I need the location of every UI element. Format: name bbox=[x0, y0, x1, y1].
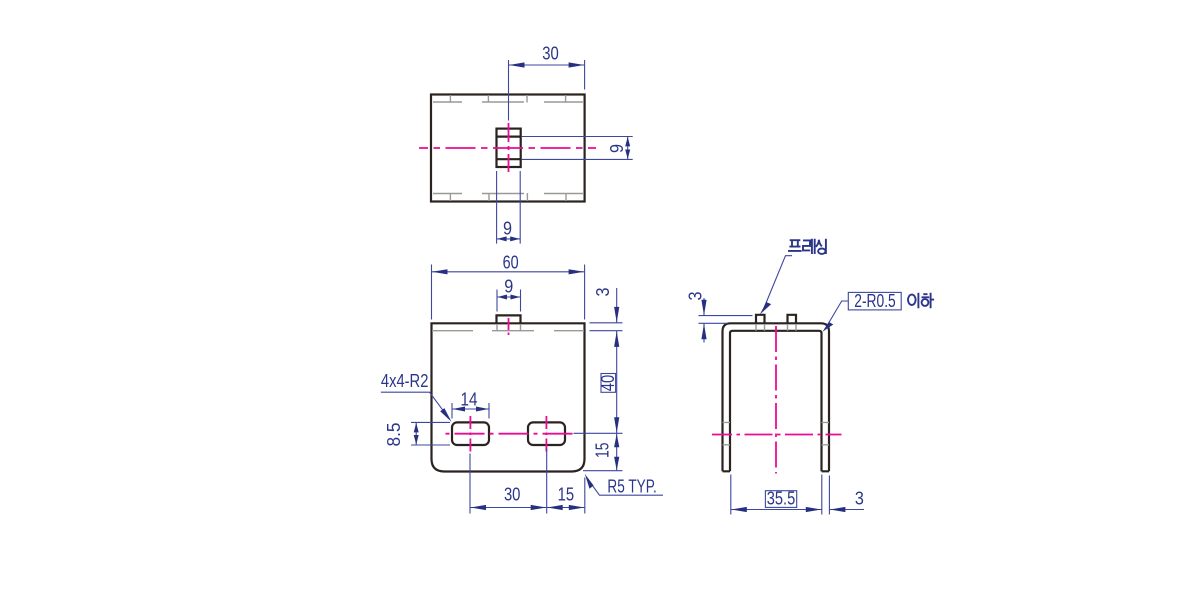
side view vertical centerline bbox=[775, 326, 777, 474]
dimension 8.5 (front view left) bbox=[384, 422, 450, 446]
hangul ha bbox=[922, 293, 935, 309]
front view right slot bbox=[528, 422, 565, 445]
front view tab centerline bbox=[508, 318, 510, 338]
svg-text:8.5: 8.5 bbox=[384, 423, 404, 447]
svg-text:2-R0.5: 2-R0.5 bbox=[854, 291, 896, 311]
svg-text:9: 9 bbox=[607, 144, 627, 153]
side view left tab bbox=[756, 315, 765, 324]
dimension 9 (top view bottom) bbox=[497, 171, 521, 244]
dimension 30 (front view bottom) bbox=[470, 449, 547, 514]
hangul i bbox=[908, 295, 916, 305]
side view channel outline bbox=[723, 323, 830, 471]
svg-text:3: 3 bbox=[855, 488, 864, 508]
svg-text:15: 15 bbox=[558, 485, 575, 505]
top view bend hidden lines (bottom) bbox=[433, 193, 584, 201]
label pressing (Korean) with leader bbox=[760, 239, 826, 315]
svg-text:35.5: 35.5 bbox=[767, 488, 796, 508]
label R5 TYP. with leader bbox=[585, 474, 663, 497]
front view left slot vertical centerline bbox=[469, 416, 471, 452]
dimension 15 (front view right) bbox=[583, 433, 623, 470]
top view horizontal centerline bbox=[419, 147, 596, 149]
dimension 15 (front view bottom) bbox=[547, 478, 585, 514]
top view vertical centerline bbox=[508, 123, 510, 172]
svg-text:3: 3 bbox=[593, 288, 613, 297]
dimension 3 (side view left) bbox=[686, 292, 753, 343]
dimension 40 boxed (front view right) bbox=[574, 331, 623, 433]
hangul sing bbox=[816, 239, 826, 254]
top view tab cutout bbox=[497, 129, 521, 167]
svg-text:R5 TYP.: R5 TYP. bbox=[607, 477, 656, 497]
side view tab hidden lines bbox=[756, 324, 796, 331]
svg-text:40: 40 bbox=[598, 375, 618, 392]
top view outline bbox=[431, 95, 585, 202]
top view bend hidden lines (top) bbox=[433, 95, 584, 103]
side view right tab bbox=[788, 315, 797, 324]
front view slot horizontal centerline bbox=[444, 433, 574, 435]
label 4x4-R2 with leader bbox=[381, 371, 452, 422]
dimension 9 (top view right) bbox=[522, 137, 633, 160]
label 2-R0.5 (boxed) with Korean suffix and leader bbox=[823, 291, 935, 332]
front view bend hidden line bbox=[432, 324, 584, 331]
dimension 3 (front view right top) bbox=[590, 288, 623, 331]
svg-text:30: 30 bbox=[542, 43, 559, 63]
svg-text:30: 30 bbox=[504, 485, 521, 505]
front view right slot vertical centerline bbox=[545, 416, 547, 452]
side view slot hidden lines bbox=[723, 422, 830, 444]
front view left slot bbox=[452, 422, 489, 445]
svg-text:14: 14 bbox=[461, 390, 478, 410]
dimension 14 (front view) bbox=[452, 390, 489, 419]
svg-text:15: 15 bbox=[593, 442, 613, 458]
dimension 35.5 boxed (side view bottom) bbox=[731, 475, 822, 515]
svg-text:9: 9 bbox=[503, 218, 512, 238]
dimension 60 (front view) bbox=[432, 252, 585, 319]
svg-text:60: 60 bbox=[503, 252, 519, 272]
dimension 9 (front view tab) bbox=[497, 277, 521, 312]
hangul peu bbox=[788, 240, 802, 251]
dimension 3 (side view bottom right) bbox=[829, 476, 864, 515]
svg-text:3: 3 bbox=[686, 292, 706, 301]
front view plate outline bbox=[432, 323, 585, 471]
front view top tab bbox=[497, 315, 521, 323]
hangul re bbox=[803, 239, 815, 254]
svg-text:9: 9 bbox=[504, 277, 513, 297]
side view horizontal centerline bbox=[712, 434, 842, 436]
svg-text:4x4-R2: 4x4-R2 bbox=[381, 371, 429, 391]
dimension 30 (top view) bbox=[509, 43, 585, 120]
